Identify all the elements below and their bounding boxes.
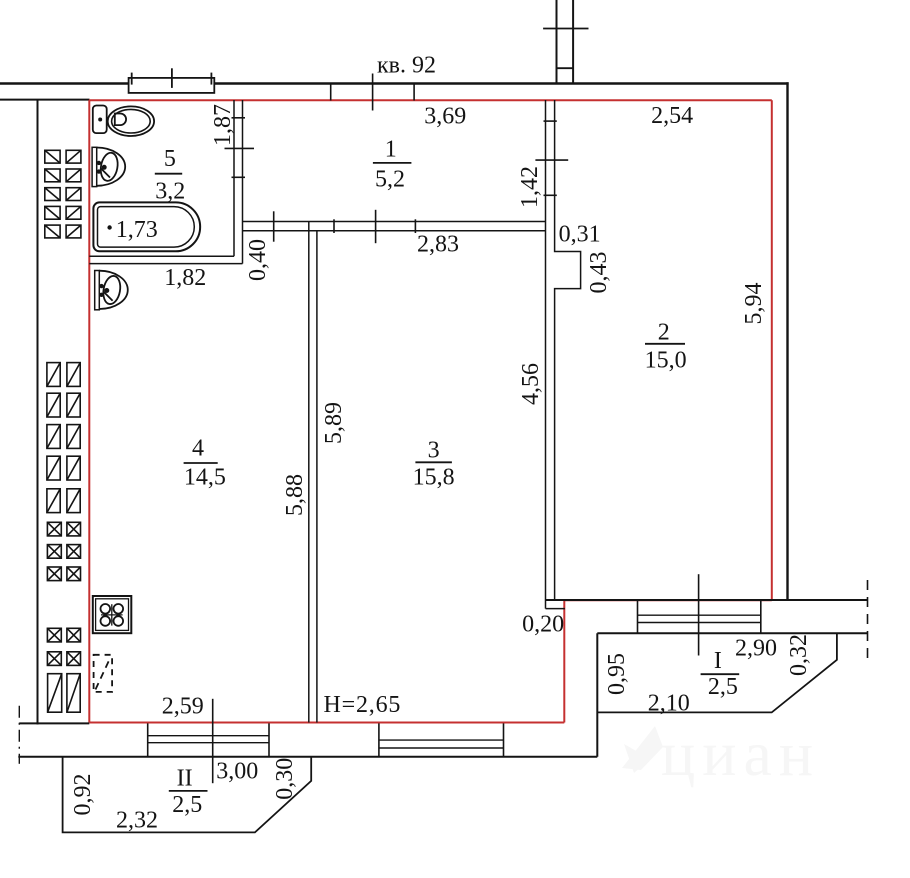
toilet flush button (115, 114, 126, 126)
svg-text:3,69: 3,69 (424, 103, 466, 129)
dimension 0,43 (vertical) (586, 252, 612, 294)
svg-text:5,88: 5,88 (282, 474, 308, 516)
dimension 2,59 (162, 693, 204, 719)
dimension 0,95 (vertical) (604, 653, 630, 695)
red boundary left (88, 100, 90, 722)
dimension 2,32 (116, 808, 158, 834)
tick: bathroom wall long (225, 147, 255, 149)
red boundary right (771, 100, 773, 600)
wall: room3-room4 right line (316, 231, 318, 723)
toilet tank dot (98, 118, 102, 122)
svg-text:1,73: 1,73 (116, 217, 158, 243)
tick: top wall short 1 (330, 84, 332, 101)
red boundary room2 bottom (564, 599, 772, 601)
tick: room2 wall upper (544, 120, 557, 122)
window box on top wall (129, 78, 215, 93)
red boundary step vertical (563, 600, 565, 722)
svg-text:4,56: 4,56 (518, 363, 544, 405)
svg-text:1: 1 (385, 136, 397, 162)
tick: bathroom wall upper (232, 117, 246, 119)
red boundary bottom (89, 722, 564, 724)
wall: room3-room4 left line (308, 222, 310, 723)
wall: bottom top line left black segment (19, 722, 89, 724)
dimension 0,40 (vertical) (245, 239, 271, 281)
svg-text:0,43: 0,43 (586, 252, 612, 294)
stove inner (96, 599, 129, 631)
svg-text:2,90: 2,90 (735, 636, 777, 662)
stove burners (101, 604, 124, 626)
washbasin (kitchen) (95, 271, 128, 310)
balcony II outline (63, 757, 312, 833)
wall: top inner face left segment (0, 99, 90, 101)
room 5 label fraction (155, 146, 186, 204)
vent blocks group B (47, 363, 80, 513)
fridge dashed diagonal (96, 658, 111, 690)
vent blocks group E (48, 674, 81, 713)
bathtub inner (98, 207, 195, 248)
wall: bottom line under room2 to neighbour (597, 632, 867, 634)
svg-text:4: 4 (192, 436, 204, 462)
dimension 5,88 (vertical) (282, 474, 308, 516)
wall: neighbour cut dashed line (867, 580, 869, 661)
svg-text:5,94: 5,94 (741, 283, 767, 325)
svg-text:0,30: 0,30 (272, 758, 298, 800)
svg-text:5,2: 5,2 (375, 166, 405, 192)
wall: right exterior vertical (786, 82, 788, 601)
svg-text:5: 5 (164, 146, 176, 172)
dimension 5,89 (vertical) (321, 402, 347, 444)
window: room3 opening left edge (378, 723, 380, 756)
room 1 label fraction (373, 136, 412, 192)
watermark cian logo (622, 718, 820, 789)
svg-text:3,00: 3,00 (216, 758, 258, 784)
wall: bathroom right inner line (233, 100, 235, 256)
svg-text:0,40: 0,40 (245, 239, 271, 281)
dimension 0,32 (vertical) (786, 634, 812, 676)
dimension 0,20 (522, 612, 564, 638)
ceiling height label (324, 692, 402, 718)
svg-text:1,42: 1,42 (517, 166, 543, 208)
room 3 label fraction (413, 438, 455, 491)
svg-text:0,32: 0,32 (786, 634, 812, 676)
bathtub dot (107, 225, 111, 229)
svg-text:0,92: 0,92 (70, 774, 96, 816)
window: room2 glass lines (638, 614, 761, 616)
svg-text:3,2: 3,2 (155, 178, 185, 204)
wall: corridor bottom bottom line (243, 230, 546, 232)
dash-dot line bottom-left (18, 706, 20, 764)
tick: room2 wall lower (544, 194, 557, 196)
dimension 0,30 (vertical) (272, 758, 298, 800)
dimension 1,42 (vertical) (517, 166, 543, 208)
vent shaft left line (556, 0, 558, 84)
svg-text:циан: циан (661, 718, 820, 789)
wall: room2 bottom black line (546, 599, 868, 601)
wall: bottom bottom line (18, 756, 597, 758)
svg-text:2: 2 (658, 320, 670, 346)
dimension 2,54 (651, 103, 693, 129)
dimension 5,94 (vertical) (741, 283, 767, 325)
wall: bathroom bottom outer line (89, 263, 242, 265)
window: balcony II opening left edge (147, 723, 149, 756)
svg-text:0,20: 0,20 (522, 612, 564, 638)
tick: corridor wall short 2 (414, 219, 416, 233)
window: balcony II opening right edge (268, 723, 270, 756)
svg-text:2,5: 2,5 (172, 792, 202, 818)
svg-text:3: 3 (428, 438, 440, 464)
vent shaft tick (543, 28, 588, 30)
vent blocks group A (45, 150, 81, 238)
svg-text:2,59: 2,59 (162, 693, 204, 719)
wall: top exterior (right of window box) (214, 82, 788, 84)
dimension 1,82 (164, 265, 206, 291)
svg-text:2,54: 2,54 (651, 103, 693, 129)
balcony II label fraction (169, 765, 208, 817)
tick: bathroom wall lower (232, 176, 246, 178)
balcony I outline (597, 633, 837, 712)
dimension 3,69 (424, 103, 466, 129)
window: room2 balcony door left edge (637, 600, 639, 633)
toilet tank (93, 106, 107, 134)
window box tick right (210, 73, 212, 85)
wall: top exterior (left of window box) (0, 82, 129, 84)
wall: bathroom bottom inner line (89, 255, 234, 257)
room 2 label fraction (645, 320, 687, 374)
bathtub label 1,73 (116, 217, 158, 243)
dimension 0,92 (vertical) (70, 774, 96, 816)
svg-text:2,10: 2,10 (648, 691, 690, 717)
dimension 1,87 (vertical) (210, 104, 236, 146)
svg-text:15,8: 15,8 (413, 464, 455, 490)
svg-text:2,5: 2,5 (708, 674, 738, 700)
tick: room2 wall long (535, 159, 568, 161)
window: room3 opening right edge (503, 723, 505, 756)
wall: bathroom right outer line (242, 100, 244, 264)
balcony I label fraction (701, 648, 740, 700)
tick: top wall short 2 (413, 84, 415, 101)
svg-text:II: II (177, 765, 193, 791)
svg-text:14,5: 14,5 (184, 464, 226, 490)
window: balcony II glass lines (148, 735, 269, 737)
wall: left exterior vertical (37, 100, 39, 725)
tick: long crossing room2 window (698, 574, 700, 655)
window: room2 balcony door right edge (760, 600, 762, 633)
toilet bowl outer (108, 106, 154, 136)
red boundary top (89, 99, 772, 101)
svg-text:1,87: 1,87 (210, 104, 236, 146)
tick: bottom long near 2,59 (212, 699, 214, 783)
svg-text:I: I (714, 648, 722, 674)
tick: corridor wall long 2 (375, 210, 377, 243)
vent blocks group D (47, 628, 80, 665)
fridge dashed square (94, 655, 113, 692)
tick: corridor wall short 1 (333, 219, 335, 233)
vent shaft right line (572, 0, 574, 84)
window: room3 glass lines (379, 739, 504, 741)
wall: room1-room2 right line with niche (555, 100, 581, 600)
dimension 2,90 (735, 636, 777, 662)
svg-text:кв. 92: кв. 92 (377, 53, 436, 79)
dimension 4,56 (vertical) (518, 363, 544, 405)
svg-text:5,89: 5,89 (321, 402, 347, 444)
svg-text:0,95: 0,95 (604, 653, 630, 695)
dimension 2,83 (417, 232, 459, 258)
wall: junction short line at room3 bottom right (546, 608, 565, 610)
tick: corridor wall long left (273, 211, 275, 241)
svg-text:0,31: 0,31 (559, 222, 601, 248)
svg-text:2,83: 2,83 (417, 232, 459, 258)
room 4 label fraction (184, 436, 226, 491)
tick: top wall long (372, 74, 374, 111)
wall: step vertical x597 (596, 633, 598, 757)
washbasin (bathroom) (92, 147, 125, 186)
vent blocks group C (47, 522, 80, 580)
window box tick left (131, 73, 133, 85)
label apartment number (377, 53, 436, 79)
bathtub outer (93, 202, 200, 251)
window box tick middle (171, 68, 173, 88)
vent shaft inner line (557, 67, 574, 69)
dimension 0,31 (559, 222, 601, 248)
dimension 2,10 (648, 691, 690, 717)
wall: corridor bottom top line (243, 221, 546, 223)
dimension 3,00 (216, 758, 258, 784)
stove outer (93, 596, 132, 633)
toilet bowl inner (112, 109, 151, 133)
svg-text:H=2,65: H=2,65 (324, 692, 402, 718)
svg-text:15,0: 15,0 (645, 347, 687, 373)
svg-text:1,82: 1,82 (164, 265, 206, 291)
wall: room1-room2 left line (545, 100, 547, 609)
svg-text:2,32: 2,32 (116, 808, 158, 834)
